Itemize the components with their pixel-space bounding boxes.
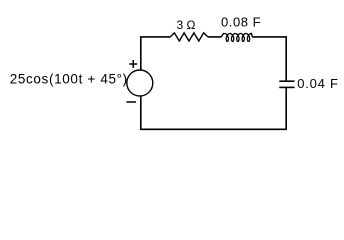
svg-text:25cos(100t + 45°): 25cos(100t + 45°) [10,71,128,86]
svg-text:3 Ω: 3 Ω [177,18,196,32]
svg-text:0.08 F: 0.08 F [221,14,261,29]
svg-text:0.04 F: 0.04 F [297,76,338,91]
